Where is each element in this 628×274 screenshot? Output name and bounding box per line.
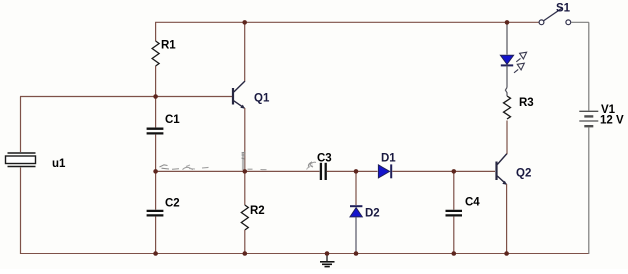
wire: mid rail left section (node B to C3) (155, 170, 319, 172)
ground (320, 254, 335, 267)
svg-text:D2: D2 (365, 208, 380, 220)
wire: left edge vertical bottom (20, 168, 22, 255)
node: LED branch at top rail (505, 20, 510, 25)
wire: R1 bottom lead to node A (155, 66, 157, 97)
capacitor C3 (321, 163, 378, 180)
svg-text:S1: S1 (556, 3, 571, 15)
node: C4 top (452, 169, 457, 174)
node A (R1/C1/base) (153, 94, 158, 99)
smudge marks along mid rail (artifacts) (160, 162, 317, 170)
LED emission arrows (514, 52, 527, 73)
capacitor C1 (147, 97, 164, 172)
svg-text:R3: R3 (519, 97, 534, 109)
svg-text:R2: R2 (250, 205, 265, 217)
svg-text:12 V: 12 V (600, 115, 624, 127)
resistor R1 (152, 41, 159, 66)
svg-text:Q1: Q1 (254, 93, 270, 105)
svg-text:C1: C1 (165, 114, 180, 126)
node: C2 bottom (153, 251, 158, 256)
node: Q2 emitter bottom (504, 251, 509, 256)
node: R2 bottom (243, 251, 248, 256)
capacitor C4 (446, 171, 463, 254)
capacitor C2 (147, 171, 164, 254)
svg-text:Q2: Q2 (516, 168, 531, 180)
wire: Q1 collector vertical to top rail (244, 22, 246, 81)
node B (C1/C2/mid rail) (153, 169, 158, 174)
wire: Q1 emitter vertical to mid rail (244, 108, 246, 171)
node: D2 top (354, 169, 359, 174)
resistor R2 (241, 171, 248, 254)
resistor R3 (504, 96, 511, 119)
svg-text:C2: C2 (165, 198, 180, 210)
svg-text:C4: C4 (465, 197, 480, 209)
wire: switch to right edge (gray) (571, 21, 589, 23)
svg-text:u1: u1 (52, 158, 66, 170)
crystal u1 (6, 153, 36, 167)
wire: bottom rail (20, 253, 589, 255)
wire: left edge vertical top (20, 97, 22, 153)
node: Q1 collector at top rail (242, 20, 247, 25)
node: C4 bottom (452, 251, 457, 256)
node: Q1 emitter / R2 at mid rail (243, 169, 248, 174)
wire: right edge vertical bottom (gray) (588, 128, 590, 255)
transistor Q2 (497, 154, 508, 185)
wire: u1 top horizontal (node A rail to Q1 base) (20, 96, 232, 98)
LED (500, 22, 513, 96)
node: ground stub (325, 251, 330, 256)
wire: Q2 collector vertical up to R3 (506, 121, 508, 155)
wire: right edge vertical top (gray) (588, 22, 590, 110)
transistor Q1 (233, 81, 245, 109)
svg-text:C3: C3 (317, 153, 332, 165)
wire: left branch vertical (R1 column top corner down to node A) (155, 22, 157, 41)
node: D2 bottom (354, 251, 359, 256)
wire: top rail (155, 21, 539, 23)
svg-text:R1: R1 (161, 40, 176, 52)
svg-text:D1: D1 (381, 153, 396, 165)
diode D1 (378, 164, 495, 178)
battery V1 (579, 111, 598, 126)
wire: Q2 emitter vertical to bottom rail (506, 184, 508, 254)
switch S1 (539, 8, 571, 25)
smudge: gray streak above Q1 emitter junction (242, 152, 246, 170)
diode D2 (clamp to ground) (350, 171, 362, 254)
